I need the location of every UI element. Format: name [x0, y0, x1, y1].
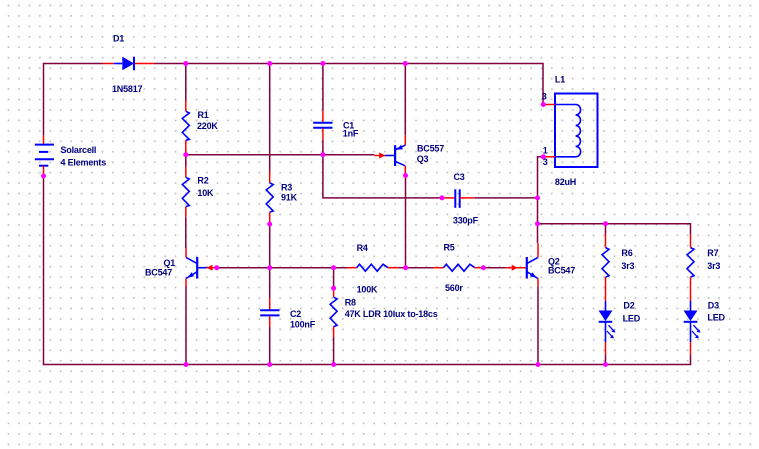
wire Q3 emitter column	[404, 64, 406, 136]
svg-text:R1: R1	[198, 110, 209, 120]
svg-text:91K: 91K	[281, 193, 298, 203]
wire R2 bottom to Q1 collector	[185, 218, 187, 249]
wire C1 column top	[322, 64, 324, 111]
svg-text:C3: C3	[454, 172, 465, 182]
transistor Q2	[506, 243, 539, 286]
svg-text:Q3: Q3	[417, 154, 429, 164]
wire R5 to Q2 base	[483, 267, 505, 269]
junction base rail / R8 branch	[331, 265, 336, 270]
svg-text:LED: LED	[623, 314, 641, 324]
battery Solarcell	[35, 136, 54, 176]
resistor R6	[602, 235, 609, 301]
svg-text:D2: D2	[623, 301, 634, 311]
svg-text:D1: D1	[113, 33, 124, 43]
junction top rail / Q3 emitter column	[403, 61, 408, 66]
svg-text:R6: R6	[621, 248, 632, 258]
svg-text:4 Elements: 4 Elements	[61, 158, 107, 168]
junction L1 pin 1	[541, 154, 546, 159]
junction bottom rail / D2 column	[603, 362, 608, 367]
junction battery negative pin	[41, 174, 46, 179]
junction C3 left pin	[440, 195, 445, 200]
junction LED rail / R6 top	[603, 221, 608, 226]
svg-text:R7: R7	[707, 248, 718, 258]
wire R4 right to junction	[398, 267, 405, 269]
wire C2 bottom	[269, 327, 271, 365]
svg-text:3r3: 3r3	[621, 261, 634, 271]
svg-text:L1: L1	[555, 75, 565, 85]
wire top rail right of D1	[154, 64, 543, 105]
wire L1 bottom jog and down	[538, 157, 544, 244]
wire R3 bottom through base rail to C2	[269, 224, 271, 298]
wire Q2 emitter down	[537, 286, 539, 364]
svg-text:BC547: BC547	[145, 268, 172, 278]
junction Q3 collector pin	[403, 173, 408, 178]
inductor L1	[543, 94, 597, 168]
transistor Q3	[374, 135, 405, 175]
svg-text:R5: R5	[444, 243, 455, 253]
transistor Q1	[186, 248, 217, 286]
LED D2	[599, 301, 616, 355]
wire R3 column	[269, 64, 271, 172]
junction bottom rail / C2 column	[267, 362, 272, 367]
svg-text:R8: R8	[345, 297, 356, 307]
resistor R8	[330, 288, 337, 337]
resistor R7	[687, 235, 694, 301]
svg-text:1: 1	[543, 146, 548, 156]
resistor R1	[182, 101, 189, 155]
resistor R4	[347, 264, 398, 271]
wire R2 column top	[185, 155, 187, 167]
wire Q3 collector to base rail	[405, 176, 407, 268]
svg-text:C2: C2	[290, 309, 301, 319]
svg-text:47K LDR 10lux to-18cs: 47K LDR 10lux to-18cs	[345, 309, 438, 319]
svg-text:Solarcell: Solarcell	[61, 145, 97, 155]
resistor R3	[266, 172, 273, 225]
svg-text:330pF: 330pF	[453, 215, 479, 225]
svg-text:100nF: 100nF	[290, 320, 316, 330]
junction base rail / C2 column	[267, 265, 272, 270]
svg-text:3: 3	[542, 92, 547, 102]
wire R1 column top	[185, 64, 187, 101]
junction base rail / Q3 collector column	[403, 265, 408, 270]
junction Q1 base pin	[214, 265, 219, 270]
capacitor C3	[442, 189, 474, 208]
junction bottom rail / Q2 emitter	[536, 362, 541, 367]
wire R8 branch	[333, 268, 335, 289]
wire R6 column top	[605, 224, 607, 235]
svg-text:1N5817: 1N5817	[112, 84, 143, 94]
wire C3 right to L1 column	[474, 197, 537, 199]
wire top-left vertical (battery top to top rail)	[44, 64, 104, 136]
junction R5 right pin	[481, 265, 486, 270]
wire C3 feed: down from mid rail and right	[323, 155, 442, 198]
capacitor C2	[260, 298, 279, 327]
wire top-right rail	[538, 224, 691, 235]
junction top rail / C1 column	[320, 61, 325, 66]
junction top rail / R3 column	[267, 61, 272, 66]
svg-text:R2: R2	[197, 176, 208, 186]
svg-text:560r: 560r	[445, 283, 463, 293]
junction R3 bottom pin	[267, 222, 272, 227]
svg-text:82uH: 82uH	[555, 177, 576, 187]
wire battery bottom / bottom rail / right end up to D3	[44, 176, 691, 365]
svg-text:3r3: 3r3	[707, 261, 720, 271]
svg-text:BC557: BC557	[417, 144, 444, 154]
junction bottom rail / Q1 emitter	[184, 362, 189, 367]
wire R8 bottom	[333, 337, 335, 365]
junction R1 bottom / mid rail	[183, 152, 188, 157]
svg-text:100K: 100K	[357, 285, 378, 295]
junction R8 top pin	[331, 286, 336, 291]
wire D2 bottom	[605, 355, 607, 365]
capacitor C1	[313, 111, 332, 141]
junction top rail / R1 column	[183, 61, 188, 66]
svg-text:1nF: 1nF	[343, 129, 359, 139]
junction bottom rail / R8 column	[331, 362, 336, 367]
wire base rail Q1 to R4	[217, 267, 347, 269]
LED D3	[684, 301, 701, 355]
svg-text:BC547: BC547	[548, 266, 575, 276]
junction C3 wire / L1 column	[535, 195, 540, 200]
diode D1	[103, 57, 154, 71]
resistor R5	[433, 264, 483, 271]
svg-text:Q1: Q1	[164, 258, 176, 268]
wire C1 bottom to mid rail	[322, 141, 324, 155]
resistor R2	[182, 167, 189, 218]
svg-text:D3: D3	[708, 301, 719, 311]
svg-text:LED: LED	[707, 313, 725, 323]
wire mid rail to Q3 base	[186, 154, 374, 156]
svg-text:R3: R3	[281, 183, 292, 193]
junction L1 pin 3	[541, 102, 546, 107]
junction L1 column / LED rail	[535, 221, 540, 226]
junction C1 bottom / mid rail	[320, 152, 325, 157]
svg-text:R4: R4	[357, 243, 368, 253]
svg-text:10K: 10K	[197, 188, 214, 198]
wire Q1 emitter down	[185, 287, 187, 365]
wire junction to R5	[406, 267, 434, 269]
svg-text:220K: 220K	[197, 121, 218, 131]
